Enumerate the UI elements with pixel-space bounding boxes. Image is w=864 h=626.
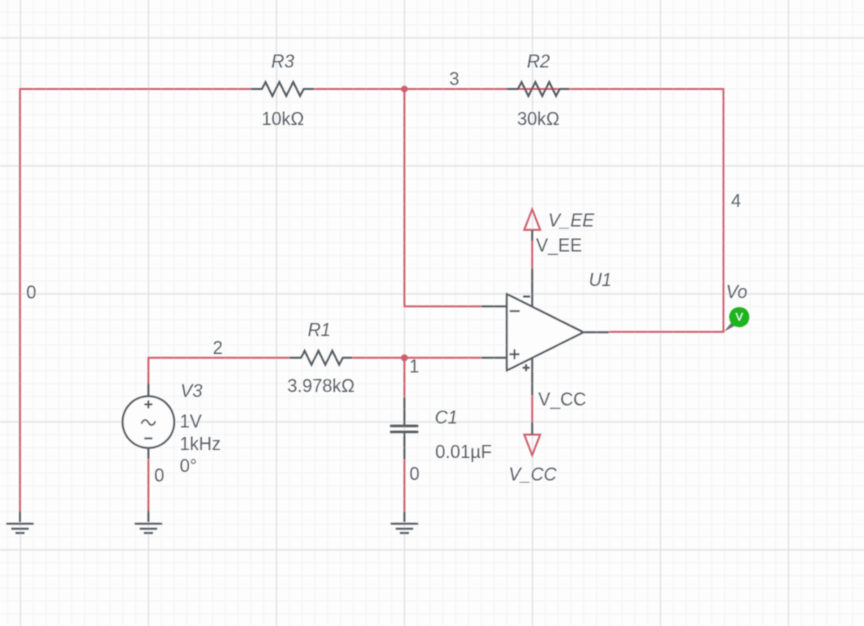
- svg-text:R3: R3: [271, 51, 294, 71]
- svg-text:V: V: [736, 312, 744, 324]
- svg-text:R2: R2: [527, 51, 550, 71]
- svg-text:10kΩ: 10kΩ: [262, 109, 304, 129]
- svg-text:R1: R1: [308, 320, 331, 340]
- svg-text:Vo: Vo: [726, 282, 747, 302]
- svg-text:0: 0: [409, 464, 419, 484]
- svg-text:1V: 1V: [180, 412, 202, 432]
- svg-text:1kHz: 1kHz: [180, 434, 221, 454]
- svg-text:V_EE: V_EE: [548, 211, 595, 231]
- svg-text:3.978kΩ: 3.978kΩ: [287, 376, 355, 396]
- svg-text:0°: 0°: [180, 456, 197, 476]
- svg-text:1: 1: [409, 356, 419, 376]
- svg-text:4: 4: [731, 191, 741, 211]
- svg-text:0: 0: [154, 465, 164, 485]
- svg-text:C1: C1: [435, 407, 458, 427]
- svg-text:0.01µF: 0.01µF: [435, 442, 491, 462]
- svg-text:U1: U1: [589, 270, 612, 290]
- svg-text:2: 2: [213, 338, 223, 358]
- svg-text:0: 0: [26, 282, 36, 302]
- svg-text:3: 3: [449, 69, 459, 89]
- svg-text:V3: V3: [180, 381, 202, 401]
- svg-text:V_EE: V_EE: [536, 235, 582, 256]
- svg-text:V_CC: V_CC: [538, 390, 586, 411]
- svg-text:30kΩ: 30kΩ: [517, 109, 559, 129]
- svg-text:V_CC: V_CC: [509, 464, 558, 484]
